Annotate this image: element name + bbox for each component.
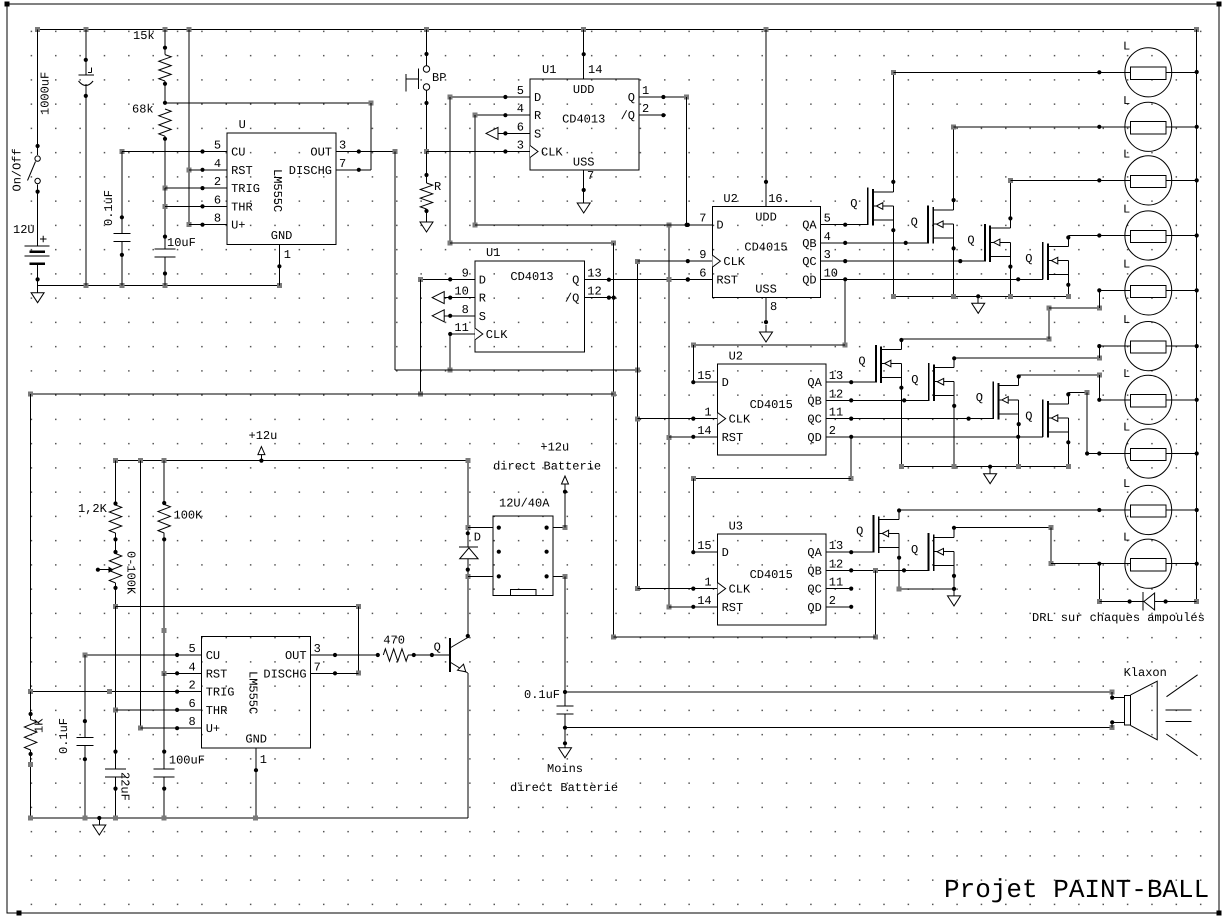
svg-text:14: 14 [588,63,602,77]
wire: QC pin 3 of U2 to MOSFET gate [821,259,985,263]
wire: QA pin 13 of U2b to MOSFET gate [826,380,876,384]
input marker + wire: R pin 10 of U1b [432,292,475,304]
wire: RST pin 14 of U2b [669,435,718,439]
ground (second 555 stage) [93,818,106,835]
shift register U3 CD4015 [697,520,843,626]
svg-text:7: 7 [587,169,594,183]
svg-text:L: L [1123,477,1130,491]
wire: +12V to RST/V+ of U 555 [187,30,192,228]
svg-text:L: L [1123,367,1130,381]
svg-text:13: 13 [829,369,843,383]
wire: QD pin 10 of U2 to MOSFET gate and next stage [821,277,1043,281]
transistor Q (MOSFET lamp1) [850,188,893,226]
power arrow +12V direct batterie [493,441,601,491]
wire: CV pin 5 of second 555 [82,653,201,658]
svg-text:U1: U1 [542,63,556,77]
svg-text:11: 11 [454,321,468,335]
svg-text:Q: Q [911,215,918,229]
svg-text:8: 8 [214,212,221,226]
svg-text:U+: U+ [231,219,245,233]
svg-text:/Q: /Q [565,292,579,306]
transistor Q (MOSFET lamp6) [911,363,954,401]
svg-text:3: 3 [339,139,346,153]
svg-text:L: L [1123,313,1130,327]
svg-text:0.1uF: 0.1uF [524,688,560,702]
wire: Q pin 1 of U1 to D of U2 [639,95,689,227]
svg-text:CU: CU [206,649,220,663]
svg-text:7: 7 [314,660,321,674]
ground (bank3) [948,589,961,606]
svg-text:1: 1 [260,753,267,767]
wire: CLK bus vertical [635,259,640,591]
wire: MOSFET lamp6 source to ground line [952,382,956,467]
transistor Q (MOSFET lamp5) [858,345,901,383]
node: BP/CLK junction [424,149,429,154]
transistor Q (MOSFET lamp2) [911,206,954,244]
wire: relay contact to klaxon line [563,576,567,705]
wire: MOSFET lamp5 source to ground line [899,364,903,467]
svg-text:4: 4 [214,157,221,171]
svg-text:Q: Q [911,543,918,557]
wire: D pin 5 of U1 feedback [448,95,617,246]
transistor Q (MOSFET lamp3) [967,224,1010,262]
capacitor 22uF [105,769,132,818]
op-amp U1 LM555C (timer U) [214,118,346,245]
svg-text:QA: QA [807,546,822,560]
svg-text:THR: THR [206,704,228,718]
svg-text:CD4013: CD4013 [510,270,553,284]
svg-text:CD4015: CD4015 [750,398,793,412]
wire: TRIG pin 2 of second 555 [31,689,202,694]
wire: QD of U2 wrap to D of U2b [691,279,848,382]
wire: DISCHG pin 7 of U [336,168,371,172]
svg-text:Q: Q [1025,252,1032,266]
svg-text:1: 1 [704,576,711,590]
lamp L8 [1087,421,1197,479]
svg-text:DISCHG: DISCHG [263,667,306,681]
diode D (relay flyback) [459,531,481,559]
lamp L4 [1068,203,1196,261]
svg-text:U2: U2 [723,192,737,206]
svg-text:5: 5 [517,84,524,98]
svg-text:R: R [434,180,441,194]
svg-text:D: D [722,546,729,560]
svg-text:6: 6 [188,697,195,711]
svg-text:1: 1 [704,406,711,420]
svg-text:QC: QC [802,255,816,269]
svg-text:D: D [722,376,729,390]
wire: relay to +12V direct batterie [563,488,567,528]
svg-text:L: L [1123,531,1130,545]
svg-text:13: 13 [587,266,601,280]
wire: U3 QB recirculation down/left [614,570,878,639]
svg-text:5: 5 [824,212,831,226]
wire: MOSFET lamp8 source to ground line [1066,418,1070,467]
flip-flop U1 CD4013 (second) [454,246,601,352]
svg-text:+12u: +12u [540,441,569,455]
wire: MOSFET6 drain jog to lamp6 [952,346,1102,367]
ground (R) [420,215,433,232]
capacitor 0.1uF (CV decoupling) [102,149,130,286]
svg-text:RST: RST [231,164,253,178]
svg-text:100K: 100K [174,509,204,523]
svg-text:RST: RST [716,273,738,287]
lamp L7 [1097,367,1196,425]
wire: MOSFET9 drain to lamp9 line [897,508,901,519]
wire: pot bottom to DISCHG link [116,604,361,676]
svg-text:15k: 15k [133,29,155,43]
wire: D pin 9 of U1b [418,277,475,397]
svg-text:0-100K: 0-100K [124,551,138,595]
svg-text:1000uF: 1000uF [39,72,53,115]
svg-text:QA: QA [802,219,817,233]
lamp L5 [1097,257,1196,315]
svg-text:UDD: UDD [573,83,595,97]
switch On/Off [11,30,41,246]
svg-text:6: 6 [517,120,524,134]
wire: relay coil + contact leads [468,525,568,579]
wire: MOSFET lamp1 source to ground line [891,206,895,296]
wire: RST pin 6 of U2 [686,277,690,281]
wire: CLK pin 11 of U1b from 555 OUT [448,332,475,373]
wire: QD pin 2 of U3 (stub) [826,605,854,609]
svg-text:QB: QB [807,394,821,408]
wire: MOSFET5 drain jog to lamp5 [899,290,1102,349]
wire: TRIG net vertical from long line [28,394,33,694]
svg-text:QB: QB [802,237,816,251]
svg-text:GND: GND [271,229,293,243]
svg-text:QD: QD [807,601,821,615]
wire: OUT pin 3 of U [336,149,397,154]
wire: QA pin 5 of U2 to MOSFET gate [821,223,868,227]
label: DRL sur chaques ampoules [1032,611,1205,625]
wire: Q pin 13 of U1b to RST bus [584,278,712,282]
wire: 555 OUT bus to CLK bus [395,152,640,373]
wire: VDD pin 16 of U2 [764,30,768,207]
wire: +12v rail of second 555 stage [113,458,468,463]
svg-text:Q: Q [967,234,974,248]
wire: GND pin 1 of U [277,245,291,286]
svg-text:100uF: 100uF [169,754,205,768]
resistor 470 [383,634,432,662]
transistor Q (MOSFET lamp9) [856,515,899,553]
battery 12V [13,223,50,286]
svg-text:8: 8 [462,303,469,317]
wire: /Q pin 12 of U1b to recirculation line [584,296,616,300]
svg-text:Q: Q [572,273,579,287]
wire: QB pin 12 of U2b to MOSFET gate [826,398,929,402]
svg-text:U1: U1 [486,246,500,260]
svg-text:6: 6 [699,266,706,280]
ground (U1 VSS) [577,196,590,213]
svg-text:Q: Q [856,525,863,539]
wire: VSS pin 8 of U2 [764,298,777,325]
wire: THR pin 6 of second 555 [116,708,202,712]
svg-text:4: 4 [188,660,195,674]
svg-text:2: 2 [829,424,836,438]
svg-text:CU: CU [231,146,245,160]
svg-text:QD: QD [807,431,821,445]
wire: MOSFET10 drain jog to lamp10 [952,525,1053,566]
svg-text:TRIG: TRIG [231,182,260,196]
svg-text:direct Batterie: direct Batterie [510,781,618,795]
svg-text:12U/40A: 12U/40A [499,497,550,511]
svg-text:Klaxon: Klaxon [1124,666,1167,680]
svg-text:direct Batterie: direct Batterie [493,460,601,474]
svg-text:BP: BP [432,71,446,85]
svg-text:12U: 12U [13,223,35,237]
svg-text:On/Off: On/Off [11,148,25,191]
svg-text:10: 10 [454,285,468,299]
wire: recirculation vertical (net to U3 QB) [611,243,616,640]
ground (battery) [31,286,44,303]
capacitor 0.1uF (klaxon filter) [524,688,574,745]
svg-text:22uF: 22uF [118,772,132,801]
wire: CLK pin 9 of U2 [638,259,713,263]
wire: emitter to ground rail [467,673,469,818]
svg-text:1K: 1K [33,718,47,733]
svg-text:D: D [479,273,486,287]
svg-text:15: 15 [697,369,711,383]
ground (bank1) [972,296,985,313]
svg-text:Q: Q [434,641,441,655]
svg-text:0.1uF: 0.1uF [102,190,116,226]
svg-text:Q: Q [628,91,635,105]
svg-text:Q: Q [976,391,983,405]
transistor Q (MOSFET lamp4) [1025,242,1068,280]
wire: QC pin 11 of U2b to MOSFET gate [826,417,993,421]
wire: GND pin 1 of second 555 [254,748,267,818]
svg-text:QD: QD [802,273,816,287]
svg-text:11: 11 [829,576,843,590]
wire: klaxon top line [565,690,1124,700]
wire: QB pin 4 of U2 to MOSFET gate [821,241,929,245]
wire: QC pin 11 of U3 (stub) [826,587,854,591]
wire: MOSFET8 drain jog to lamp8 [1066,390,1089,455]
svg-text:1,2K: 1,2K [78,502,108,516]
svg-text:CLK: CLK [723,255,745,269]
capacitor 100uF [154,673,205,818]
svg-text:U: U [239,118,246,132]
svg-text:2: 2 [188,679,195,693]
wire: bank2 source ground line [899,464,1071,469]
wire: collector to relay coil [466,531,470,638]
ground Moins direct Batterie [510,741,618,795]
svg-text:QC: QC [807,413,821,427]
svg-text:CLK: CLK [729,413,751,427]
capacitor 0.1uF (CV of second 555) [57,655,93,818]
svg-text:S: S [534,127,541,141]
wire: ground rail of first 555 stage [38,283,282,288]
svg-text:3: 3 [517,139,524,153]
wire: trigger line to second 555 (long horizontal) [28,391,614,396]
wire: VSS pin 7 of U1 [582,170,586,196]
title: Projet PAINT-BALL [944,875,1209,905]
svg-text:8: 8 [770,300,777,314]
wire: MOSFET3 drain to lamp3 line [1008,178,1013,228]
svg-text:CD4013: CD4013 [562,113,605,127]
svg-text:12: 12 [829,557,843,571]
capacitor 10uF [155,236,196,286]
svg-text:8: 8 [188,715,195,729]
wire: V+ pin 8 of U [189,223,227,227]
speaker Klaxon [1124,666,1198,756]
transistor Q (MOSFET lamp7) [976,381,1019,419]
svg-text:RST: RST [722,431,744,445]
svg-text:4: 4 [517,102,524,116]
wire: bottom ground rail [28,816,468,821]
svg-text:CLK: CLK [541,146,563,160]
svg-text:OUT: OUT [285,649,307,663]
svg-text:USS: USS [755,283,777,297]
wire: bank3 source ground line [897,586,957,591]
svg-text:14: 14 [697,424,711,438]
ground (bank2) [984,467,997,484]
svg-text:TRIG: TRIG [206,686,235,700]
wire: lamp return rail (right side) [1194,30,1199,605]
wire: V+ pin 8 of second 555 [141,726,202,730]
wire: QD of U2b wrap to D of U3 [691,437,854,552]
wire: klaxon bottom line [565,720,1124,730]
svg-text:D: D [474,531,481,545]
lamp L9 [899,477,1197,535]
svg-text:68k: 68k [132,103,154,117]
wire: VDD pin 14 of U1 [582,30,586,79]
wire: R4/Q1 node to D pin 7 of U2 [472,115,712,227]
svg-text:2: 2 [214,175,221,189]
svg-text:R: R [479,292,486,306]
lamp L2 [954,94,1197,152]
wire: RST pin 4 of U [189,168,227,172]
wire: +12V top rail (node VCC) [35,27,1199,32]
svg-text:7: 7 [339,157,346,171]
wire: CLK pin 1 of U2b [638,417,718,421]
svg-text:Q: Q [850,197,857,211]
resistor 100K [158,461,203,674]
wire: MOSFET lamp10 source to ground line [952,552,956,589]
svg-text:10: 10 [824,266,838,280]
svg-text:UDD: UDD [755,211,777,225]
capacitor 1000uF [39,30,95,286]
resistor 1,2K [78,461,122,555]
wire: RST bus vertical [666,222,671,609]
wire: TRIG pin 2 of U [165,186,227,190]
svg-text:12: 12 [829,387,843,401]
wire: OUT pin 3 of second 555 to 470 [311,653,380,657]
svg-text:LM555C: LM555C [270,169,284,212]
wire: CLK pin 1 of U3 [638,587,718,591]
svg-text:Moins: Moins [547,762,583,776]
svg-text:CD4015: CD4015 [744,241,787,255]
wire: QA pin 13 of U3 to MOSFET gate [826,550,874,554]
shift register U2 CD4015 (first) [699,192,838,298]
resistor R (pulldown) [420,152,441,220]
svg-text:Projet PAINT-BALL: Projet PAINT-BALL [944,875,1209,905]
svg-text:RST: RST [722,601,744,615]
wire: MOSFET lamp7 source to ground line [1017,400,1021,467]
ground (U2 VSS) [760,325,773,342]
svg-text:USS: USS [573,156,595,170]
diode DRL (protection diode row) [1097,564,1197,611]
wire: CV pin 5 of U [122,149,227,153]
wire: R pin 4 of U1 [472,113,530,118]
svg-text:/Q: /Q [621,109,635,123]
input marker + wire: S pin 6 of U1 [486,127,530,139]
svg-text:DISCHG: DISCHG [289,164,332,178]
svg-text:15: 15 [697,539,711,553]
svg-text:OUT: OUT [310,146,332,160]
svg-text:14: 14 [697,594,711,608]
transistor Q (relay driver) [430,638,468,674]
svg-text:L: L [1123,203,1130,217]
svg-text:THR: THR [231,200,253,214]
wire: RST pin 4 of second 555 [162,671,202,676]
svg-text:L: L [1123,421,1130,435]
svg-text:L: L [1123,147,1130,161]
power arrow +12v [249,429,278,461]
svg-text:L: L [1123,39,1130,53]
wire: pot bottom to THR and 22uF [113,607,118,769]
resistor 68k [132,103,171,191]
svg-text:13: 13 [829,539,843,553]
op-amp U LM555C (second timer) [188,637,320,749]
svg-text:Q: Q [1025,409,1032,423]
wire: QD pin 2 of U2b to MOSFET gate and next stage [826,435,1043,439]
node: 15k/68k junction to DISCHG [163,101,374,170]
transistor Q (MOSFET lamp8) [1025,400,1068,438]
input marker + wire: S pin 8 of U1b [432,310,475,322]
wire: DISCHG pin 7 of second 555 [311,671,359,675]
svg-text:2: 2 [829,594,836,608]
svg-text:D: D [716,219,723,233]
lamp L6 [1097,313,1196,371]
svg-text:U2: U2 [729,350,743,364]
resistor 15k [133,29,171,103]
wire: MOSFET2 drain to lamp2 line [951,124,956,210]
svg-text:CD4015: CD4015 [750,568,793,582]
svg-text:10uF: 10uF [167,236,196,250]
svg-text:DRL sur chaques ampoulés: DRL sur chaques ampoulés [1032,611,1205,625]
lamp L10 [1051,531,1197,589]
svg-text:7: 7 [699,212,706,226]
wire: bank1 source ground line [891,294,1071,299]
wire: /Q pin 2 of U1 (stub) [639,113,666,117]
svg-text:9: 9 [699,248,706,262]
svg-text:U3: U3 [729,520,743,534]
wire: MOSFET1 drain to lamp1 line [891,70,896,192]
svg-text:QC: QC [807,583,821,597]
wire: +12V rail to diode/relay node [465,458,470,579]
wire: MOSFET lamp9 source to ground line [897,534,901,589]
flip-flop U1 CD4013 (first) [517,63,649,183]
svg-text:4: 4 [824,230,831,244]
svg-text:U+: U+ [206,722,220,736]
push button BP [406,30,446,152]
svg-text:S: S [479,310,486,324]
svg-text:5: 5 [188,642,195,656]
wire: MOSFET7 drain jog to lamp7 [1017,372,1102,399]
svg-text:11: 11 [829,406,843,420]
wire: +12V to V+ of second 555 [138,461,143,731]
svg-text:Q: Q [911,373,918,387]
svg-text:9: 9 [462,266,469,280]
wire: MOSFET lamp4 source to ground line [1066,261,1070,297]
svg-text:QA: QA [807,376,822,390]
svg-text:1: 1 [642,84,649,98]
svg-text:LM555C: LM555C [246,671,260,714]
svg-text:Q: Q [858,355,865,369]
lamp L3 [1010,147,1196,205]
